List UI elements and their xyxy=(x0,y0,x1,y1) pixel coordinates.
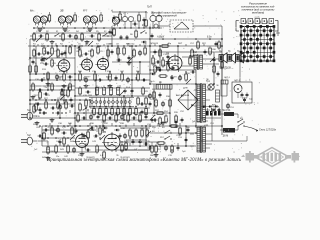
elcap C17 xyxy=(55,74,59,80)
resistor R56 xyxy=(169,125,179,128)
wire xyxy=(117,46,119,62)
resistor R82 xyxy=(48,13,51,23)
wire xyxy=(190,84,212,148)
svg-text:Дв 6Н15: Дв 6Н15 xyxy=(150,43,159,45)
svg-text:«а-б»: «а-б» xyxy=(254,16,260,18)
ground xyxy=(80,152,85,156)
resistor R53 xyxy=(155,112,165,115)
capacitor C39 xyxy=(243,98,246,103)
capacitor C61 xyxy=(44,93,49,96)
capacitor C86 xyxy=(84,53,89,56)
svg-text:6Н2П: 6Н2П xyxy=(106,77,112,79)
connector lugs xyxy=(241,19,274,24)
resistor R99 xyxy=(87,130,90,140)
output tube Л4 xyxy=(166,53,182,73)
resistor R8 xyxy=(51,46,54,56)
capacitor C97 xyxy=(32,60,35,65)
wire xyxy=(150,51,222,53)
resistor R6 xyxy=(135,29,138,39)
wire xyxy=(42,152,96,154)
diode Д4 xyxy=(114,129,120,132)
capacitor C59 xyxy=(171,76,174,81)
capacitor C46 xyxy=(139,139,142,144)
resistor R91 xyxy=(63,136,66,146)
resistor R72 xyxy=(103,113,106,123)
choke Др1 xyxy=(156,82,172,89)
resistor R51 xyxy=(153,90,156,100)
resistor R50 xyxy=(125,141,128,151)
ground xyxy=(166,60,171,64)
wire xyxy=(75,119,150,121)
ground xyxy=(31,95,36,99)
capacitor C99 xyxy=(139,103,144,106)
label lug note xyxy=(254,16,260,18)
wire xyxy=(193,26,222,39)
wire xyxy=(90,107,150,109)
label Мк xyxy=(30,9,34,13)
resistor R69 xyxy=(79,102,82,112)
resistor R100 xyxy=(103,150,106,160)
wire xyxy=(63,90,65,104)
resistor R78 xyxy=(99,126,102,136)
svg-text:ТрП: ТрП xyxy=(147,6,152,9)
wire xyxy=(74,46,76,126)
microphone head Мк xyxy=(33,16,47,25)
resistor R58 xyxy=(138,13,141,23)
ground xyxy=(50,118,55,122)
input jack Гн1 xyxy=(21,110,37,120)
wire xyxy=(159,46,161,70)
capacitor C5 xyxy=(120,35,123,40)
resistor R110 xyxy=(145,18,148,28)
capacitor C96 xyxy=(157,69,162,72)
wire xyxy=(30,103,75,105)
resistor R21 xyxy=(79,72,82,82)
label ТрП xyxy=(147,6,152,9)
remote control box xyxy=(170,20,193,32)
wire xyxy=(213,52,215,84)
capacitor C31 xyxy=(131,89,134,94)
svg-text:90 М: 90 М xyxy=(223,136,228,138)
wire xyxy=(47,74,49,90)
capacitor C71 xyxy=(44,129,49,132)
resistor R66 xyxy=(185,72,188,82)
resistor R47 xyxy=(135,128,138,138)
caption xyxy=(46,158,242,163)
resistor R71 xyxy=(77,113,80,123)
label Пр 0,5А xyxy=(222,109,231,112)
svg-text:R101: R101 xyxy=(150,73,156,75)
label panel note xyxy=(241,2,275,15)
svg-text:Д7Ж: Д7Ж xyxy=(183,88,188,90)
ground xyxy=(63,28,68,32)
capacitor C73 xyxy=(75,128,78,133)
wire xyxy=(153,84,155,113)
capacitor C24 xyxy=(38,89,43,92)
output transformer Тр3 xyxy=(197,126,206,153)
resistor R41 xyxy=(35,102,38,112)
capacitor C102 xyxy=(64,51,67,56)
capacitor C82 xyxy=(175,120,178,125)
value labels 3 xyxy=(34,31,235,143)
capacitor C23 xyxy=(141,79,146,82)
wire xyxy=(33,32,112,34)
wire xyxy=(42,137,75,139)
mains arrow xyxy=(244,126,258,132)
lug hatch xyxy=(247,21,268,24)
elcap C68 xyxy=(120,114,124,120)
capacitor C80 xyxy=(215,42,218,47)
wire xyxy=(145,126,147,146)
ground xyxy=(161,121,166,125)
elcap C3 xyxy=(74,34,78,40)
wire xyxy=(221,39,223,135)
resistor R107 xyxy=(57,100,60,110)
elcap C22 xyxy=(126,77,130,83)
elcap C76 xyxy=(164,145,168,151)
label А.ВЫХ xyxy=(156,36,165,39)
resistor R11 xyxy=(117,46,120,56)
capacitor C57 xyxy=(190,71,195,74)
motor box xyxy=(232,82,252,103)
resistor R105 xyxy=(113,27,116,37)
resistor R97 xyxy=(179,126,182,136)
output tube Л5 xyxy=(102,131,120,152)
resistor R34 xyxy=(117,107,120,117)
resistor R29 xyxy=(142,86,145,96)
label row mid xyxy=(150,43,217,51)
wire xyxy=(89,100,91,108)
capacitor C55 xyxy=(155,61,160,64)
resistor R63 xyxy=(213,64,216,74)
resistor R49 xyxy=(146,128,149,138)
svg-text:15к: 15к xyxy=(78,155,81,157)
elcap C28 xyxy=(109,86,112,97)
label Сеть xyxy=(259,129,277,132)
svg-text:6Н2П: 6Н2П xyxy=(58,77,64,79)
capacitor C79 xyxy=(61,52,64,57)
value labels xyxy=(33,44,191,154)
resistor R42 xyxy=(47,145,55,155)
capacitor C100 xyxy=(151,34,154,39)
ground xyxy=(127,61,132,65)
diode Д2 xyxy=(102,127,108,130)
resistor R27 xyxy=(51,82,54,92)
triode Л3 xyxy=(74,131,89,149)
capacitor C90 xyxy=(187,127,190,132)
capacitor C95 xyxy=(119,133,122,138)
resistor R106 xyxy=(133,48,136,58)
label Гр2 xyxy=(228,51,231,53)
capacitor C78 xyxy=(37,53,42,56)
resistor R103 xyxy=(79,86,82,96)
resistor R30 xyxy=(93,107,96,117)
capacitor C66 xyxy=(97,115,100,120)
label 6,3в xyxy=(207,37,212,39)
wire xyxy=(28,45,222,47)
resistor R96 xyxy=(151,144,154,154)
capacitor C52 xyxy=(181,118,184,123)
capacitor C64 xyxy=(82,117,87,120)
resistor R61 xyxy=(167,62,170,72)
fuse Пр2 xyxy=(220,128,238,133)
resistor R9 xyxy=(69,45,72,55)
svg-text:ного управления: ного управления xyxy=(157,15,177,18)
label ЗВ xyxy=(60,9,64,13)
resistor R19 xyxy=(47,71,50,81)
diode Д5 xyxy=(201,105,207,108)
elcap C27 xyxy=(102,86,105,97)
capacitor C94 xyxy=(86,149,91,152)
capacitor C12 xyxy=(154,50,157,55)
wire xyxy=(42,125,222,127)
switch block П2К xyxy=(88,95,134,107)
capacitor C37 xyxy=(56,112,61,115)
resistor R81 xyxy=(171,144,174,154)
resistor R57 xyxy=(156,142,166,145)
connector bracket right xyxy=(275,21,280,37)
resistor R39 xyxy=(45,100,48,110)
ground xyxy=(108,84,113,88)
resistor R108 xyxy=(145,96,148,106)
resistor R76 xyxy=(51,126,54,136)
resistor R14 xyxy=(159,48,162,58)
capacitor C35 xyxy=(39,108,42,113)
resistor R101 xyxy=(154,64,157,74)
capacitor C16 xyxy=(40,79,45,82)
resistor R25 xyxy=(137,72,140,82)
wire xyxy=(185,126,187,146)
resistor R18 xyxy=(35,64,38,74)
wire xyxy=(29,39,31,118)
resistor R24 xyxy=(121,72,124,82)
capacitor C74 xyxy=(90,127,95,130)
wire xyxy=(33,27,162,29)
wire xyxy=(42,145,196,147)
wire xyxy=(123,96,125,120)
capacitor C32 xyxy=(141,110,144,115)
svg-text:ЗВ: ЗВ xyxy=(60,9,64,13)
resistor R60 xyxy=(162,58,165,68)
svg-text:R6 56к: R6 56к xyxy=(128,44,135,46)
resistor R59 xyxy=(152,56,155,66)
capacitor C92 xyxy=(83,133,86,138)
capacitor C105 xyxy=(132,23,137,26)
resistor R44 xyxy=(67,144,70,154)
capacitor C84 xyxy=(149,102,152,107)
value labels 2 xyxy=(34,77,231,159)
label Гр3 xyxy=(237,51,240,53)
wire xyxy=(195,70,197,128)
capacitor C81 xyxy=(152,119,157,122)
resistor R70 xyxy=(85,98,88,108)
capacitor C54 xyxy=(143,17,146,22)
trapezoid bracket xyxy=(37,26,93,29)
capacitor C47 xyxy=(159,93,162,98)
resistor R80 xyxy=(155,144,158,154)
capacitor C89 xyxy=(143,143,148,146)
resistor R111 xyxy=(107,48,110,58)
label remote text xyxy=(151,12,187,18)
capacitor C41 xyxy=(62,132,67,135)
capacitor C25 xyxy=(60,89,65,92)
resistor R65 xyxy=(158,75,168,78)
resistor R92 xyxy=(155,98,158,108)
wire xyxy=(131,46,133,96)
capacitor C13 xyxy=(167,55,170,60)
junction dots 3 xyxy=(29,27,211,151)
capacitor C88 xyxy=(41,58,44,63)
capacitor C14 xyxy=(204,50,207,55)
wire xyxy=(85,108,87,120)
resistor R45 xyxy=(96,144,99,154)
wire xyxy=(107,46,109,62)
ground xyxy=(46,156,51,160)
wire xyxy=(112,12,146,28)
resistor R16 xyxy=(191,48,194,58)
resistor R35 xyxy=(123,107,126,117)
ground xyxy=(50,40,55,44)
wire xyxy=(120,12,146,28)
capacitor C21 xyxy=(115,76,118,81)
wire xyxy=(182,57,219,66)
elcap C44 xyxy=(123,133,127,139)
elcap C26 xyxy=(95,86,98,97)
resistor R22 xyxy=(94,72,97,82)
resistor R73 xyxy=(115,113,118,123)
diode Д1 xyxy=(141,41,147,44)
label xyxy=(106,44,135,46)
label Сф xyxy=(249,98,253,101)
capacitor C77 xyxy=(177,145,180,150)
resistor R33 xyxy=(111,107,114,117)
wire xyxy=(65,46,67,58)
svg-text:С5 680: С5 680 xyxy=(106,44,114,46)
triode Л2a xyxy=(80,55,93,72)
wire xyxy=(150,132,196,134)
label Р/Т xyxy=(83,9,88,13)
ground xyxy=(62,84,67,88)
wire xyxy=(38,141,49,145)
wire xyxy=(149,26,151,84)
wire xyxy=(56,46,58,58)
resistor R43 xyxy=(55,144,58,154)
triode Л2b xyxy=(95,56,108,71)
resistor R55 xyxy=(175,114,178,124)
wire xyxy=(30,79,150,81)
resistor R5 xyxy=(98,32,101,42)
ground xyxy=(35,121,40,125)
wire xyxy=(201,108,247,141)
ground xyxy=(156,66,161,70)
wire xyxy=(30,57,75,59)
loudspeaker Гр2 xyxy=(228,53,236,63)
elcap C19 xyxy=(84,77,88,83)
bridge rectifier Д7Ж xyxy=(178,88,198,111)
resistor R79 xyxy=(121,143,124,153)
svg-text:монтажа): монтажа) xyxy=(252,11,264,15)
capacitor C2 xyxy=(68,35,73,38)
capacitor C50 xyxy=(213,108,221,113)
resistor R87 xyxy=(197,40,200,50)
resistor R54 xyxy=(165,114,168,124)
resistor R90 xyxy=(43,131,46,141)
capacitor C9 xyxy=(117,59,122,62)
resistor R46 xyxy=(129,128,132,138)
resistor R2 xyxy=(46,32,49,42)
elcap C65 xyxy=(89,114,93,120)
capacitor C49 xyxy=(151,118,154,123)
wire xyxy=(50,12,102,13)
capacitor C56 xyxy=(172,66,175,71)
wire xyxy=(35,46,37,74)
wire xyxy=(42,129,96,131)
capacitor C7 xyxy=(46,52,51,55)
switch K2 xyxy=(102,34,108,37)
capacitor C58 xyxy=(217,72,220,77)
wire xyxy=(238,93,247,104)
capacitor C15 xyxy=(213,58,216,63)
capacitor C67 xyxy=(108,117,113,120)
watermark logo xyxy=(241,148,303,167)
resistor R20 xyxy=(63,72,66,82)
elcap C72 xyxy=(56,127,60,133)
resistor R10 xyxy=(97,45,100,55)
resistor R75 xyxy=(139,113,142,123)
resistor R38 xyxy=(145,107,148,117)
switch K5 xyxy=(87,128,93,131)
resistor R23 xyxy=(109,72,112,82)
diode Д7 xyxy=(213,105,219,108)
wire xyxy=(59,104,61,118)
resistor R52 xyxy=(169,98,172,108)
resistor R40 xyxy=(65,100,68,110)
svg-text:А.ВЫХ: А.ВЫХ xyxy=(156,36,165,39)
capacitor C104 xyxy=(113,15,116,20)
connector socket xyxy=(154,24,170,28)
label Тр5М xyxy=(223,136,228,138)
fuse Пр1 xyxy=(221,112,238,116)
resistor R102 xyxy=(29,64,32,74)
oscillator coil L1 xyxy=(122,16,133,28)
capacitor C1 xyxy=(39,35,44,38)
wire xyxy=(150,83,196,85)
erase head А xyxy=(112,17,119,26)
resistor R67 xyxy=(39,90,42,100)
capacitor C75 xyxy=(147,147,152,150)
wire xyxy=(41,126,43,146)
motor ЭДГ-1 xyxy=(234,80,242,93)
wire xyxy=(111,26,113,46)
power transformer Тр1 xyxy=(197,81,211,123)
label row bottom xyxy=(46,149,139,157)
capacitor C4 xyxy=(90,35,95,38)
resistor R48 xyxy=(141,128,144,138)
elcap C10 xyxy=(138,50,142,56)
terminal strip xyxy=(206,108,221,116)
transformer ТрП xyxy=(150,12,162,29)
capacitor C69 xyxy=(131,117,136,120)
connector bracket left xyxy=(236,21,239,32)
capacitor C103 xyxy=(70,98,73,103)
resistor R36 xyxy=(129,107,132,117)
resistor R4 xyxy=(81,32,84,42)
node xyxy=(39,99,67,114)
connector panel grid xyxy=(240,25,276,62)
elcap C29 xyxy=(116,86,119,97)
switch В2 xyxy=(237,118,244,127)
switch levers xyxy=(36,37,215,140)
